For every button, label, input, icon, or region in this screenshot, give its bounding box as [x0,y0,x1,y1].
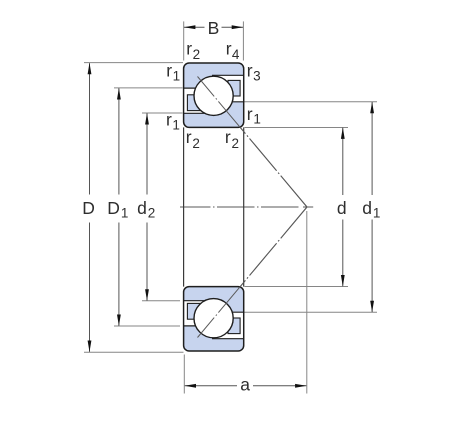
svg-text:2: 2 [232,136,240,151]
svg-text:d: d [137,198,147,218]
svg-text:1: 1 [373,206,381,221]
svg-text:r: r [226,39,232,59]
svg-text:1: 1 [121,206,129,221]
svg-text:r: r [247,104,253,124]
svg-text:2: 2 [193,47,201,62]
svg-text:3: 3 [253,68,261,83]
svg-text:D: D [107,198,120,218]
svg-text:r: r [166,61,172,81]
svg-text:1: 1 [253,111,261,126]
svg-text:2: 2 [148,206,156,221]
svg-text:a: a [240,375,250,395]
svg-text:B: B [208,18,220,38]
svg-text:d: d [337,198,347,218]
svg-text:D: D [82,198,95,218]
svg-text:r: r [186,39,192,59]
svg-text:1: 1 [172,117,180,132]
svg-text:r: r [166,110,172,130]
svg-text:r: r [225,127,231,147]
svg-text:r: r [247,61,253,81]
svg-text:r: r [186,127,192,147]
svg-text:2: 2 [192,136,200,151]
svg-text:d: d [362,198,372,218]
svg-text:4: 4 [232,47,240,62]
svg-text:1: 1 [173,68,181,83]
